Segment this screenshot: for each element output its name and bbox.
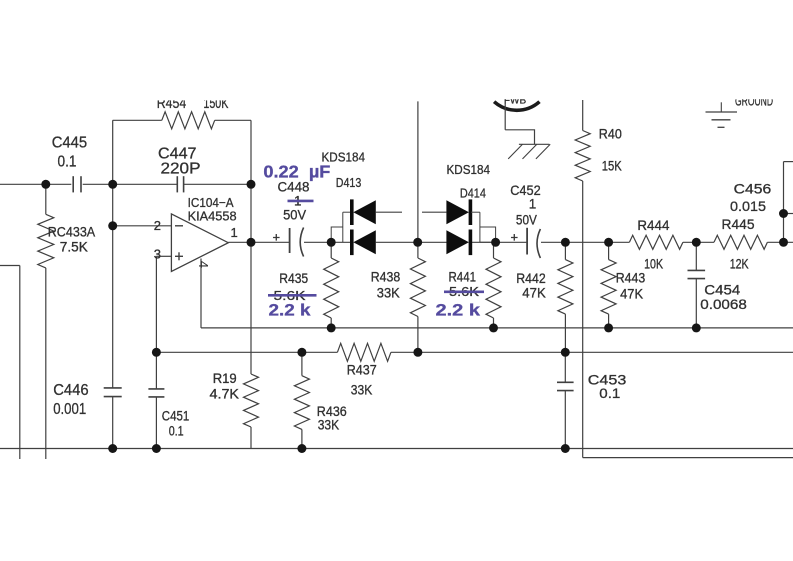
capacitor C451 plates: [148, 388, 164, 390]
capacitor C446 plates: [104, 387, 122, 389]
node dot C453 bottom ground row: [561, 444, 570, 453]
svg-text:C446: C446: [53, 382, 89, 399]
resistor R433A: [38, 214, 54, 268]
svg-text:R438: R438: [371, 270, 401, 285]
wire R40 top lead: [582, 100, 584, 131]
earth ground symbol top right: [720, 102, 722, 112]
diode D414 top (points right): [469, 199, 473, 225]
resistor R442: [558, 260, 573, 315]
svg-text:C451: C451: [162, 408, 190, 423]
node dot R445 right: [779, 238, 788, 247]
wire R442 bottom lead down to wire B: [564, 314, 566, 352]
wire R435 bottom lead: [330, 318, 332, 328]
node dot op-amp output: [247, 238, 256, 247]
svg-text:47K: 47K: [522, 286, 546, 301]
wire R19 top lead from output node: [250, 242, 252, 374]
wire A horizontal y=328: [201, 327, 793, 329]
node dot R436 top wire B: [297, 348, 306, 357]
wire C454 top lead: [695, 242, 697, 270]
svg-text:KDS184: KDS184: [447, 162, 491, 177]
node dot C447 right: [247, 180, 256, 189]
wire C451 top lead: [155, 352, 157, 389]
svg-text:C445: C445: [52, 134, 88, 151]
resistor R40: [575, 131, 590, 182]
wire right vertical x=783.5 (C456 branch): [783, 162, 785, 243]
wire D414 top row left stub with gap: [422, 211, 447, 213]
resistor R437: [337, 343, 391, 361]
wire D414 node L-link: [480, 227, 496, 242]
svg-text:D413: D413: [336, 175, 362, 190]
wire B horizontal y=352.3 segments around R437: [156, 351, 337, 353]
annotation strike line C448 value: [288, 200, 314, 203]
svg-text:50V: 50V: [516, 213, 537, 228]
wire R442 top lead: [564, 242, 566, 259]
node dot inverting feedback: [108, 180, 117, 189]
wire R40 exit to right edge: [583, 457, 793, 459]
capacitor C452 (polarized) straight plate: [526, 228, 528, 255]
resistor R445: [714, 235, 767, 249]
svg-text:33K: 33K: [351, 383, 373, 398]
wire main row C448 to D413 node: [304, 241, 332, 243]
svg-text:47K: 47K: [620, 287, 643, 302]
resistor R436: [294, 376, 309, 430]
svg-text:KIA4558: KIA4558: [188, 209, 237, 224]
svg-text:2.2 k: 2.2 k: [269, 301, 312, 320]
resistor R454: [162, 112, 215, 129]
wire main row C452 to R444: [541, 241, 629, 243]
wire R40 long bottom lead: [582, 181, 584, 458]
svg-text:0.1: 0.1: [599, 386, 620, 401]
wire C451 bottom lead: [155, 397, 157, 449]
node dot pin3/C451 wire B: [152, 348, 161, 357]
svg-text:0.1: 0.1: [169, 424, 184, 439]
annotation strike line R435 value: [268, 294, 317, 297]
wire main row D413 node to bar: [332, 241, 352, 243]
wire D413 top row right stub with gap: [376, 211, 402, 213]
svg-text:1: 1: [231, 225, 238, 240]
wire C453 bottom lead: [564, 391, 566, 449]
node dot R442/C453 wire B: [561, 348, 570, 357]
resistor R441: [486, 258, 501, 318]
svg-text:D414: D414: [460, 186, 486, 201]
svg-text:3: 3: [154, 247, 161, 262]
svg-text:2: 2: [154, 218, 161, 233]
capacitor C445 plates: [72, 176, 74, 192]
wire left vertical x=112.7 (inverting node): [112, 120, 114, 388]
diode D413 bottom (points left): [350, 230, 354, 256]
wire op-amp pin2 row: [113, 225, 172, 227]
svg-text:C454: C454: [704, 282, 741, 297]
capacitor C452 curved plate: [537, 229, 540, 258]
svg-text:0.22 µF: 0.22 µF: [263, 162, 330, 182]
wire R436 top lead: [301, 352, 303, 375]
svg-text:C456: C456: [734, 180, 772, 196]
wire main row D414 bottom anode row: [418, 241, 447, 243]
node dot R435 bottom wire A: [327, 323, 336, 332]
svg-text:50V: 50V: [283, 208, 306, 223]
resistor R435: [324, 258, 339, 318]
annotation strike line R441 value: [444, 290, 484, 293]
diode D413 top (points left): [350, 199, 354, 225]
node dot R442 top: [561, 238, 570, 247]
svg-text:12K: 12K: [730, 257, 749, 272]
svg-text:R19: R19: [213, 371, 237, 386]
node dot center vertical wire B: [413, 348, 422, 357]
resistor R443: [601, 260, 616, 315]
wire center vertical R438 top lead: [417, 242, 419, 258]
wire center vertical x=417.9 top part: [417, 101, 419, 242]
svg-text:R443: R443: [616, 271, 646, 286]
svg-text:0.0068: 0.0068: [700, 297, 747, 312]
svg-text:KDS184: KDS184: [322, 150, 366, 165]
svg-text:+: +: [273, 230, 281, 245]
node dot C456 branch: [779, 209, 788, 218]
svg-text:7.5K: 7.5K: [60, 240, 88, 255]
wire R433A top lead: [45, 184, 47, 214]
wire op-amp pin3 row: [156, 255, 171, 257]
wire top right exit y=161.6: [784, 161, 793, 163]
wire R436 bottom lead: [301, 429, 303, 448]
op-amp U IC104-A triangle: [171, 214, 228, 272]
svg-text:33K: 33K: [318, 417, 340, 432]
diode D413 left connector: [342, 212, 344, 242]
wire pin4 drop to wire A: [200, 259, 202, 328]
wire left stub box horizontal y=265.5: [0, 265, 20, 267]
wire C ground row y=448.5: [0, 448, 793, 450]
wire R435 top lead: [330, 242, 332, 258]
capacitor C448 (polarized) straight plate: [289, 228, 291, 253]
wire main row R445 to right edge: [767, 241, 793, 243]
svg-text:4: 4: [196, 261, 211, 268]
wire R441 bottom lead: [493, 318, 495, 328]
svg-text:1: 1: [529, 197, 537, 212]
white crop band at top: [0, 0, 793, 99]
svg-text:10K: 10K: [644, 257, 663, 272]
svg-text:R444: R444: [637, 218, 669, 233]
svg-text:220P: 220P: [161, 161, 201, 178]
wire input row between C445 and C447: [83, 183, 177, 185]
wire pin3 vertical down to wire B: [155, 256, 157, 352]
wire bridge to chassis ground: [505, 130, 534, 145]
node dot D414 right: [491, 238, 500, 247]
node dot R443 bottom wire A: [604, 323, 613, 332]
wire R443 bottom lead: [608, 314, 610, 328]
wire D413 node L-link: [331, 227, 343, 242]
wire main row op-amp output to C448: [228, 241, 289, 243]
wire C453 top lead: [564, 352, 566, 382]
capacitor C448 curved plate: [300, 228, 303, 257]
wire R433A bottom lead crossing ground row: [45, 268, 47, 459]
wire C456 stub to right edge: [784, 213, 793, 215]
node dot center D413/D414: [413, 238, 422, 247]
svg-text:0.001: 0.001: [53, 401, 86, 418]
capacitor C453 plates: [557, 381, 574, 383]
wire feedback top horizontal (R454 row): [113, 119, 162, 121]
diode D414 bottom (points right): [469, 230, 473, 256]
svg-text:2.2 k: 2.2 k: [436, 301, 481, 320]
resistor R19: [244, 374, 259, 427]
node dot R436 bottom ground row: [297, 444, 306, 453]
resistor R438: [410, 258, 425, 317]
op-amp minus sign pin2: [175, 225, 183, 227]
wire main row D413 base to center node: [376, 241, 418, 243]
capacitor C454 plates: [688, 269, 706, 271]
wire C454 bottom lead: [695, 279, 697, 328]
svg-text:0.015: 0.015: [730, 199, 766, 214]
node dot R444/R445/C454: [692, 238, 701, 247]
svg-text:R437: R437: [347, 362, 377, 377]
node dot pin2 branch: [108, 221, 117, 230]
wire input row from C447 to feedback vertical: [184, 183, 251, 185]
svg-text:15K: 15K: [602, 159, 622, 174]
wire main row D414 bar to C452: [471, 241, 527, 243]
wire from bridge circle down: [504, 103, 506, 130]
fuse/bridge circle bottom arc (top-cropped): [494, 102, 539, 111]
svg-text:RC433A: RC433A: [48, 225, 95, 240]
svg-text:0.1: 0.1: [58, 154, 77, 171]
wire D414 bar to node: [480, 241, 496, 243]
node dot R441 bottom wire A: [489, 323, 498, 332]
resistor R444: [629, 235, 683, 249]
svg-text:33K: 33K: [377, 286, 400, 301]
chassis ground symbol: [519, 143, 549, 145]
wire R443 top lead: [608, 242, 610, 259]
svg-text:4.7K: 4.7K: [210, 386, 240, 401]
wire left stub box vertical x=19.8: [19, 266, 21, 460]
node dot C451 bottom ground row: [152, 444, 161, 453]
svg-text:R442: R442: [516, 271, 546, 286]
capacitor C447 plates: [176, 176, 178, 192]
svg-text:C448: C448: [278, 180, 310, 195]
wire R441 top lead: [493, 242, 495, 258]
node dot R443 top: [604, 238, 613, 247]
diode D414 right connector: [479, 212, 481, 242]
wire input row y=184 left segment: [0, 183, 71, 185]
svg-text:+: +: [511, 230, 519, 245]
node dot C445/R433A: [41, 180, 50, 189]
svg-text:R441: R441: [449, 270, 477, 285]
op-amp plus sign pin3: [175, 255, 183, 257]
svg-text:R445: R445: [722, 217, 755, 232]
wire center vertical R438 bottom lead to wire B: [417, 317, 419, 353]
wire right feedback vertical x=251: [250, 120, 252, 242]
wire C446 bottom lead: [112, 397, 114, 449]
node dot C446 bottom ground row: [108, 444, 117, 453]
node dot D413 left: [327, 238, 336, 247]
wire R19 bottom lead: [250, 427, 252, 449]
svg-text:R435: R435: [279, 271, 308, 286]
svg-text:R40: R40: [599, 127, 622, 142]
wire main row R444 to R445: [683, 241, 714, 243]
node dot C454 bottom wire A: [692, 323, 701, 332]
